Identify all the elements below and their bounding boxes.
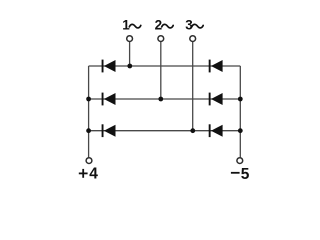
svg-text:2: 2	[155, 18, 163, 33]
svg-text:5: 5	[241, 166, 250, 183]
svg-text:1: 1	[122, 18, 130, 33]
svg-text:4: 4	[89, 166, 98, 183]
